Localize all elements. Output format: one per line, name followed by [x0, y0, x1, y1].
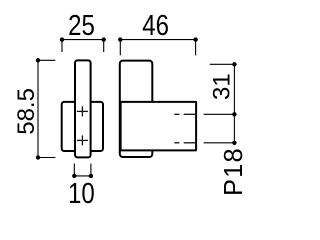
screw cross top [77, 106, 88, 116]
screw cross bottom [77, 135, 88, 145]
left view: hook bar [75, 60, 91, 157]
right view: back plate [120, 61, 153, 157]
svg-text:31: 31 [209, 73, 236, 100]
svg-text:25: 25 [68, 9, 95, 41]
svg-text:10: 10 [68, 177, 95, 209]
hidden line upper [174, 113, 196, 115]
dimension 10 [74, 164, 91, 176]
dimension 31 / P18 [204, 64, 235, 143]
svg-text:58.5: 58.5 [13, 88, 40, 135]
right view: hook body block [121, 102, 197, 150]
left view: mounting plate [62, 102, 103, 151]
dimension 25 [62, 40, 104, 52]
dimension 58.5 [38, 60, 55, 157]
hidden line lower [174, 142, 196, 144]
dimension 46 [120, 40, 195, 56]
svg-text:P18: P18 [220, 147, 248, 196]
svg-text:46: 46 [142, 9, 169, 41]
